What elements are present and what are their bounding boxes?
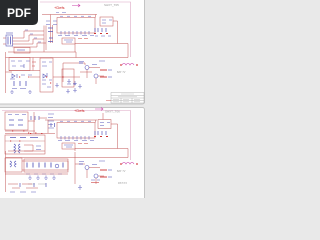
junction dots right xyxy=(94,33,108,35)
ground G2 xyxy=(73,81,77,85)
feed box part xyxy=(17,49,25,51)
mid cluster diode xyxy=(12,74,17,78)
ground G8 xyxy=(78,185,82,189)
U1 left labels xyxy=(46,21,57,25)
value smudge p2 xyxy=(28,183,46,185)
wire row72 xyxy=(6,72,41,77)
transistor Q3 xyxy=(85,166,89,170)
page 1 sheet xyxy=(0,0,145,104)
rail wire B p2 xyxy=(6,157,129,159)
bridge U3 xyxy=(6,35,13,46)
svg-text:BAT 7V: BAT 7V xyxy=(117,170,126,173)
power port arrow xyxy=(72,4,80,7)
box1 specks row1 xyxy=(11,60,30,62)
aux box right xyxy=(100,17,113,26)
cap cluster right xyxy=(95,28,106,32)
svg-text:BAT 7V: BAT 7V xyxy=(117,71,126,74)
red ref text p2 xyxy=(78,143,88,145)
rectA top specks xyxy=(42,62,52,66)
wire top rail p2 xyxy=(45,120,97,133)
box1 specks row2 xyxy=(12,64,24,68)
inter junctions p2 xyxy=(12,131,42,134)
title block xyxy=(111,93,144,104)
preview background xyxy=(0,0,149,198)
big loop wire xyxy=(75,44,128,58)
badge-edge cluster verticals xyxy=(44,26,46,53)
q wires p2 xyxy=(75,152,104,184)
opto symbol xyxy=(64,40,73,42)
gm labels xyxy=(67,83,76,85)
bottom labels p2 xyxy=(10,191,36,193)
ground G7b xyxy=(52,176,56,180)
ground G1 xyxy=(67,79,71,83)
sheet frame xyxy=(40,2,131,57)
staircase wire 1 xyxy=(13,31,45,38)
junction dots p2 xyxy=(94,136,108,138)
transistor Q1 xyxy=(85,66,89,70)
input pins p2 xyxy=(8,114,26,116)
aux parts p2 xyxy=(100,123,110,126)
bridge label xyxy=(6,32,13,34)
bottom wires p2 xyxy=(8,184,38,188)
ground G7 xyxy=(44,176,48,180)
U2 pin labels below xyxy=(58,140,94,142)
out label 2 xyxy=(100,76,107,78)
U1 bottom pin stubs xyxy=(61,31,89,35)
sheet frame p2 xyxy=(2,111,131,161)
bus wire p2 xyxy=(5,173,68,175)
filter caps p2 xyxy=(31,116,39,120)
U2 bottom pin stubs xyxy=(61,136,89,140)
svg-text:+Defs: +Defs xyxy=(74,108,85,113)
U1 top pin labels xyxy=(60,15,91,17)
aux box p2 xyxy=(98,120,111,129)
rectA dots xyxy=(46,77,51,83)
transistor Q2 xyxy=(94,74,98,78)
sense wire p2 xyxy=(91,182,99,184)
label column p2 xyxy=(48,114,54,128)
svg-text:SHXT_T05: SHXT_T05 xyxy=(104,3,119,7)
svg-text:SHXT_T06: SHXT_T06 xyxy=(105,110,120,114)
U1 pin labels below xyxy=(58,35,94,37)
cap bank enclosure xyxy=(24,159,68,172)
staircase wire 3 xyxy=(13,39,45,44)
pin text above rail xyxy=(56,12,66,14)
transistor Q4 xyxy=(94,174,98,178)
led DS1 xyxy=(55,164,59,168)
aux riser p2 xyxy=(102,113,104,120)
cap cluster p2 xyxy=(95,131,106,135)
rect B xyxy=(62,69,74,87)
res R22 xyxy=(79,163,83,165)
mid cluster parts xyxy=(10,75,32,79)
out tag p2 2 xyxy=(108,176,112,178)
wire aux p2 xyxy=(111,124,118,149)
step specks xyxy=(25,30,41,42)
feed box xyxy=(14,48,30,54)
choke wires2 p2 xyxy=(24,145,33,151)
fuse pads xyxy=(120,64,138,66)
out label p2 1 xyxy=(100,169,107,171)
mid cluster dots xyxy=(19,76,29,78)
ground G4 xyxy=(66,89,70,93)
rectA parts xyxy=(42,73,52,87)
left stubs xyxy=(3,38,6,44)
choke parts p2 xyxy=(10,137,38,139)
svg-text:PDF: PDF xyxy=(7,6,31,20)
staircase wire 2 xyxy=(13,35,45,41)
ground GM2 xyxy=(73,88,77,92)
wire left col xyxy=(51,25,53,43)
q labels p2 xyxy=(79,161,105,165)
red ref text xyxy=(78,38,88,40)
transformer T3 p2 xyxy=(10,161,16,167)
wire row70 xyxy=(9,58,40,71)
fuse F2 xyxy=(122,162,134,164)
rail wire B xyxy=(6,57,129,59)
ic U1 xyxy=(57,18,95,34)
wire vert p2 xyxy=(28,112,47,133)
U2 top pin labels xyxy=(60,120,91,122)
fuse F1 xyxy=(122,63,134,65)
aux box parts xyxy=(102,20,112,23)
input box p2 xyxy=(5,112,28,130)
caps row labels xyxy=(12,88,26,90)
ground GL2 xyxy=(28,90,32,93)
title text marks xyxy=(113,94,140,102)
ground G5 xyxy=(28,176,32,180)
ground G6 xyxy=(36,176,40,180)
out transformer box p2 xyxy=(5,158,22,172)
left edge vertical p2 xyxy=(5,151,7,192)
cap bank C23 xyxy=(38,163,40,168)
cap bank C25 xyxy=(50,163,52,168)
staircase wire 4 xyxy=(13,43,47,47)
out label p2 2 xyxy=(100,176,107,178)
ic U2 xyxy=(57,123,95,139)
rect A xyxy=(40,58,53,92)
bridge bars xyxy=(8,37,11,45)
cap bank C22 xyxy=(32,163,34,168)
page 2 sheet xyxy=(0,108,145,214)
power port arrow p2 xyxy=(95,108,103,111)
ground GL1 xyxy=(10,90,14,93)
mid red specks xyxy=(32,62,36,66)
fuse pads p2 xyxy=(120,163,138,165)
wire aux xyxy=(113,21,118,44)
opto box xyxy=(62,38,75,44)
cap labels p2 xyxy=(26,173,62,175)
ground G3 xyxy=(78,84,82,88)
res R21 xyxy=(79,62,83,64)
rail wire A xyxy=(8,52,76,58)
big loop wire p2 xyxy=(75,149,128,158)
title block tail xyxy=(106,100,111,102)
out tag 1 xyxy=(108,69,112,71)
transformer T2 p2 xyxy=(14,144,20,153)
q labels xyxy=(79,61,105,65)
wire top rail xyxy=(42,15,97,28)
left edge vertical xyxy=(5,52,7,93)
choke box p2 xyxy=(5,135,45,154)
choke junctions p2 xyxy=(10,133,36,141)
out tag p2 1 xyxy=(108,169,112,171)
q wires xyxy=(80,63,104,84)
cap bank C21 xyxy=(26,163,28,168)
block box1 xyxy=(9,58,30,71)
opto symbol p2 xyxy=(64,145,73,147)
badge-edge blue glyphs xyxy=(48,28,53,42)
rectA diode xyxy=(43,74,46,78)
strip top wire xyxy=(50,57,52,60)
junction dot j1 xyxy=(62,76,63,78)
ground GM1 xyxy=(55,83,59,87)
choke wires p2 xyxy=(5,140,45,142)
sense parts p2 xyxy=(91,179,100,181)
opto box p2 xyxy=(62,143,75,149)
bottom glyphs p2 xyxy=(20,183,46,187)
svg-text:+Defs: +Defs xyxy=(54,5,65,10)
out tag 2 xyxy=(108,76,112,78)
input parts p2 xyxy=(9,120,23,125)
cap labels right xyxy=(95,35,111,37)
series caps p2 xyxy=(51,123,55,127)
caps row C16 xyxy=(14,81,26,86)
cap bank C26 xyxy=(62,163,64,168)
svg-text:RST P3: RST P3 xyxy=(118,182,127,185)
rail wire A p2 xyxy=(8,150,45,152)
choke parts2 p2 xyxy=(36,146,41,150)
lower wires p2 xyxy=(22,161,68,170)
PDF badge xyxy=(0,0,38,25)
cap bank C24 xyxy=(44,163,46,168)
wire y63 xyxy=(53,63,85,82)
inter wires p2 xyxy=(5,131,55,134)
out label 1 xyxy=(100,69,107,71)
